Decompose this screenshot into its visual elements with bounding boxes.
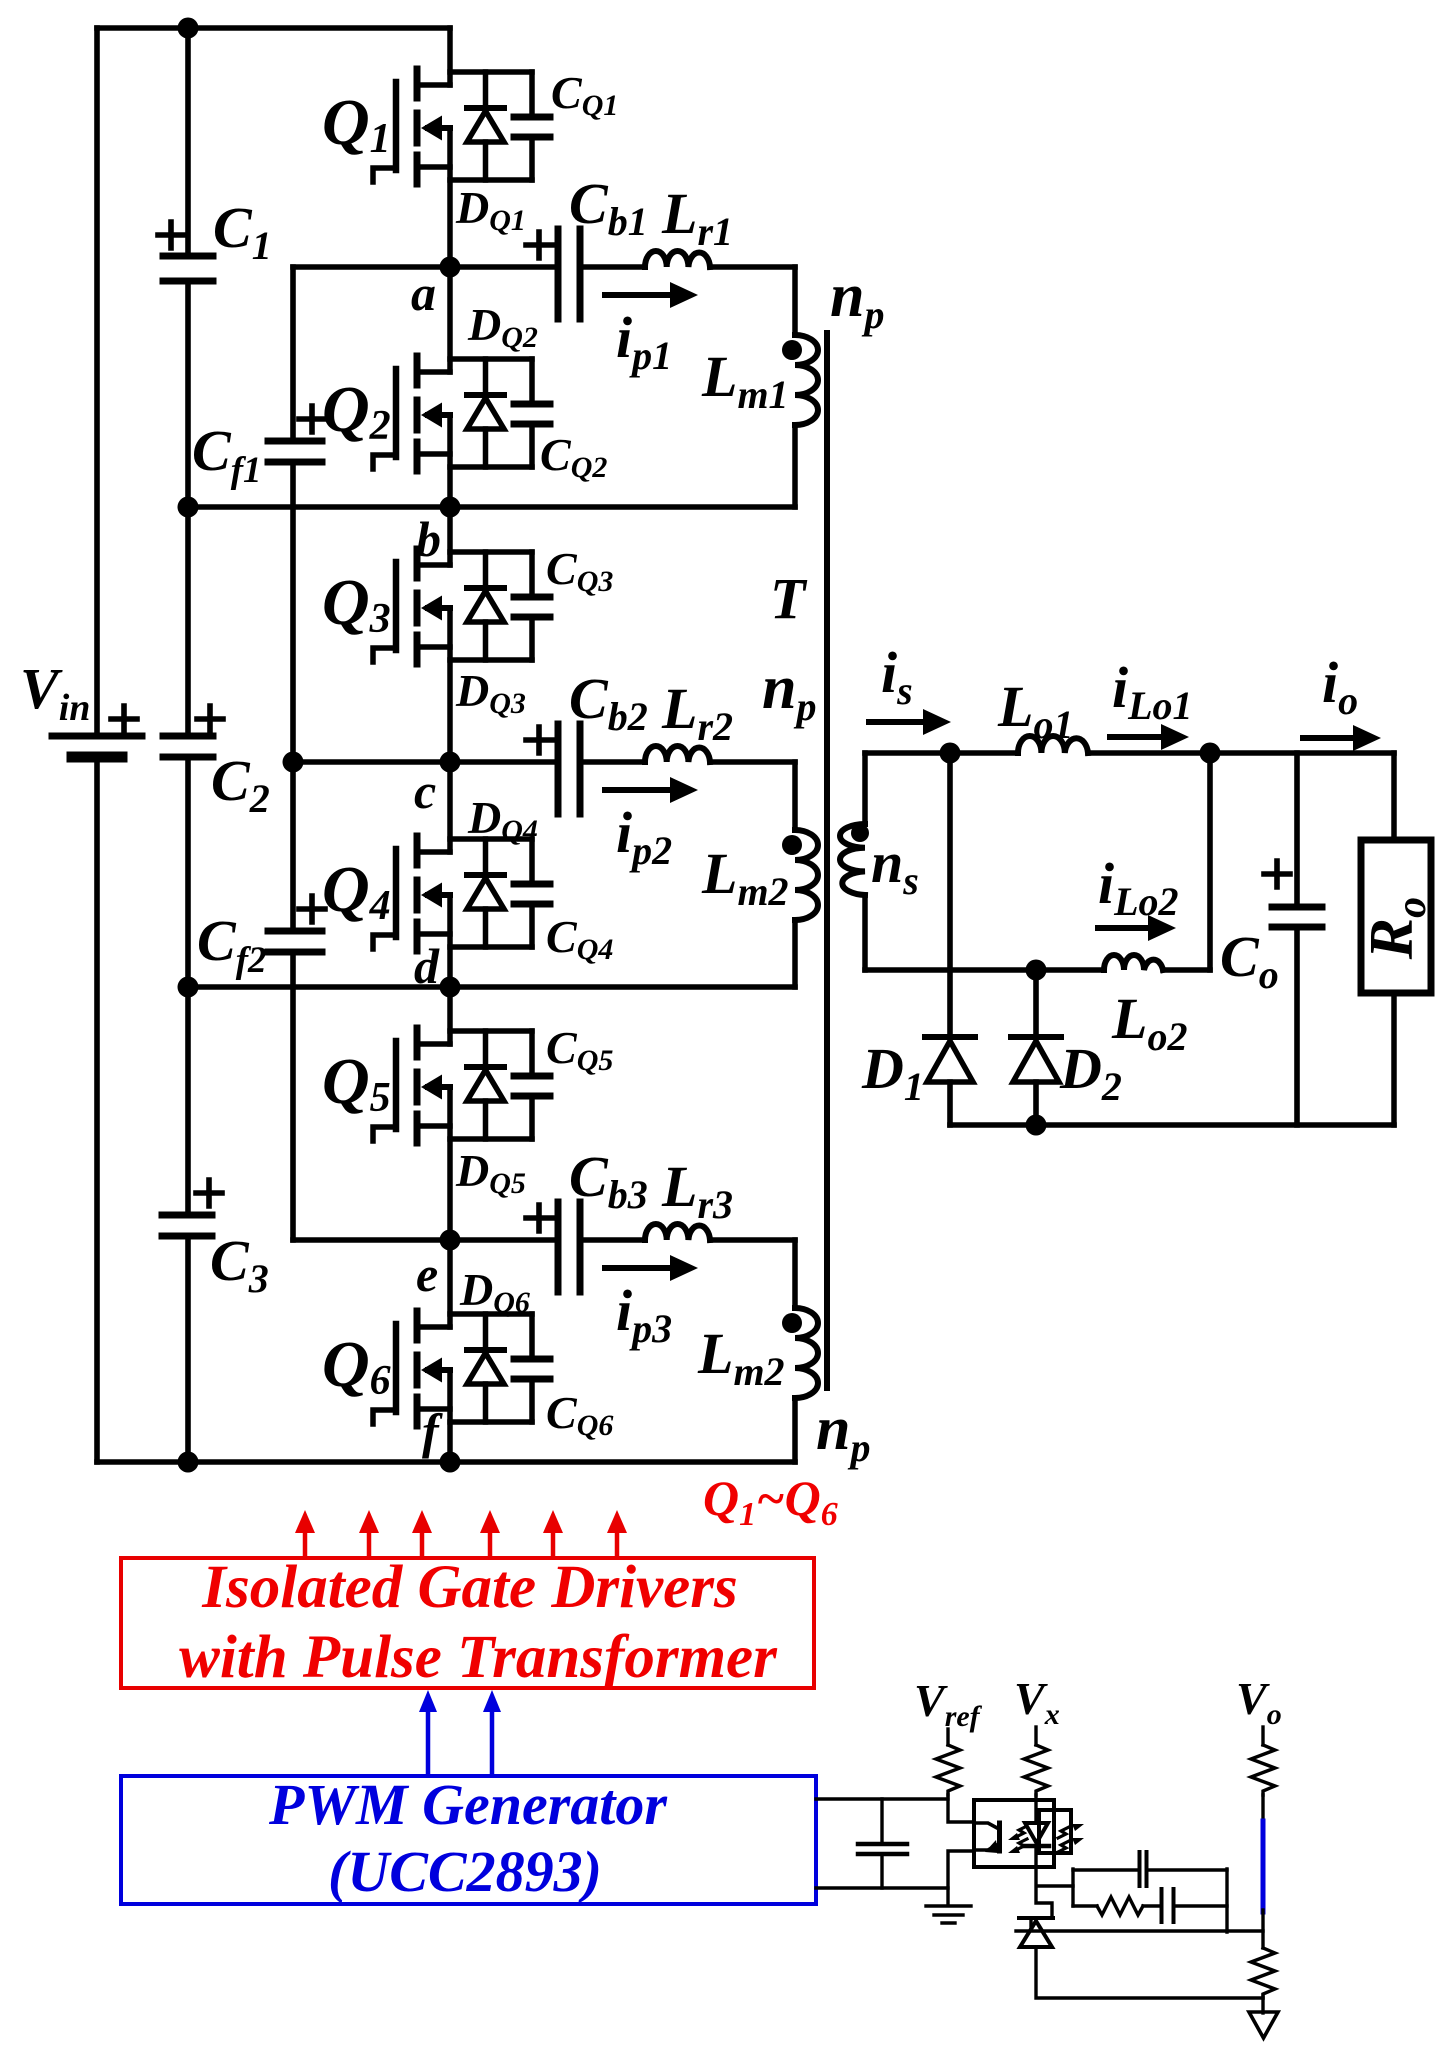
plus sign of C3: [196, 1180, 222, 1206]
plus sign of Cf1: [299, 406, 325, 432]
capacitor C1: [163, 256, 213, 281]
optocoupler box: [974, 1800, 1054, 1867]
svg-text:DQ6: DQ6: [459, 1264, 530, 1319]
transistor Q4 cell with body diode DQ4 and capacitor CQ4: [373, 836, 550, 951]
plus sign of Cf2: [299, 896, 325, 922]
wire REF line: [1016, 1919, 1263, 1931]
transformer core line: [824, 333, 830, 1388]
resistor (Vref): [936, 1745, 960, 1795]
svg-text:DQ1: DQ1: [455, 182, 526, 237]
plus sign of Co: [1264, 861, 1290, 887]
svg-text:ip3: ip3: [616, 1278, 672, 1351]
svg-text:with Pulse Transformer: with Pulse Transformer: [179, 1624, 778, 1691]
node c: [440, 752, 461, 773]
capacitor (PWM bypass): [880, 1799, 883, 1888]
wire Vx lead: [1034, 1727, 1037, 1745]
svg-text:ip1: ip1: [616, 305, 672, 378]
blue box: PWM Generator: [121, 1776, 816, 1904]
svg-text:Cb1: Cb1: [569, 171, 648, 244]
wire: capacitor rail x=188 segment 2: [185, 284, 191, 733]
red gate arrows Q1..Q6: [295, 1510, 627, 1556]
svg-text:C3: C3: [210, 1228, 269, 1301]
light arrows: [1016, 1826, 1027, 1850]
svg-text:DQ3: DQ3: [455, 665, 526, 720]
svg-text:ip2: ip2: [616, 800, 672, 873]
svg-text:iLo2: iLo2: [1098, 851, 1179, 924]
svg-text:Cb3: Cb3: [569, 1144, 648, 1217]
svg-text:C1: C1: [213, 195, 272, 268]
svg-text:c: c: [414, 763, 436, 819]
inductor Lo1: [1018, 736, 1088, 753]
resistor (Vx): [1024, 1745, 1048, 1795]
capacitor C2: [163, 736, 213, 757]
svg-text:Cf2: Cf2: [197, 908, 267, 981]
wire: node a stub to flying rail: [290, 267, 296, 438]
wire node f (bottom rail): [97, 1459, 795, 1465]
svg-text:Q4: Q4: [322, 853, 391, 929]
svg-text:Lm2: Lm2: [697, 1321, 785, 1394]
wire divider mid: [1261, 1910, 1264, 1948]
capacitor C3: [162, 1215, 212, 1236]
svg-text:DQ5: DQ5: [455, 1145, 526, 1200]
svg-text:a: a: [411, 265, 436, 321]
wire Vo resistor to divider (upper black): [1261, 1795, 1264, 1822]
svg-text:Vin: Vin: [20, 656, 90, 729]
wire secondary middle rail: [865, 967, 1210, 973]
svg-text:CQ2: CQ2: [540, 429, 607, 484]
load resistor Ro: [1391, 753, 1397, 1125]
svg-text:CQ1: CQ1: [551, 67, 618, 122]
RC compensation network: [1073, 1852, 1227, 1932]
wire divider blue segment: [1261, 1821, 1266, 1912]
transistor Q1 cell with body diode DQ1 and capacitor CQ1: [373, 69, 550, 184]
node e: [440, 1230, 461, 1251]
transistor Q5 cell with body diode DQ5 and capacitor CQ5: [373, 1028, 550, 1143]
node f: [440, 1452, 461, 1473]
wire: left input rail (upper): [94, 28, 100, 736]
wire TL431 anode: [1036, 1947, 1263, 1998]
svg-text:T: T: [770, 566, 808, 631]
wire: flying rail mid: [290, 465, 296, 928]
svg-text:Lr3: Lr3: [661, 1154, 733, 1227]
svg-text:b: b: [416, 511, 441, 567]
wire: flying rail bottom: [290, 955, 296, 1240]
svg-text:d: d: [414, 938, 440, 994]
current arrow iLo2: [1098, 915, 1176, 941]
wire node b: [188, 504, 795, 510]
wire below lower resistor: [1261, 1995, 1264, 2013]
optocoupler LED: [1024, 1823, 1049, 1846]
optocoupler phototransistor: [974, 1823, 1000, 1851]
wire Vref lead: [946, 1729, 949, 1745]
wire: capacitor rail x=188 segment 4: [185, 1239, 191, 1462]
wire primary 2 down: [792, 762, 798, 830]
svg-text:ns: ns: [871, 830, 919, 903]
wire primary 1 down: [792, 267, 798, 335]
svg-text:Lm2: Lm2: [701, 841, 789, 914]
svg-text:Cb2: Cb2: [569, 666, 648, 739]
winding Lm3 (primary np, labelled Lm2 in source): [795, 1308, 818, 1398]
svg-text:Q5: Q5: [322, 1045, 391, 1121]
node b: [440, 497, 461, 518]
svg-text:Lm1: Lm1: [701, 344, 789, 417]
winding Lm2 (primary np): [795, 830, 818, 920]
diode D2: [1033, 970, 1039, 1033]
svg-text:CQ5: CQ5: [546, 1022, 613, 1077]
current arrow ip2: [605, 777, 698, 803]
wire: capacitor rail x=188 segment 3: [185, 760, 191, 1212]
wire LED cathode down / tee to RC: [1036, 1847, 1073, 1917]
svg-text:D1: D1: [861, 1036, 924, 1109]
source Vin battery: [52, 736, 142, 757]
wire: left input rail (lower): [94, 757, 100, 1462]
capacitor Co: [1294, 753, 1300, 905]
current arrow ip1: [605, 282, 698, 308]
diode D1: [947, 753, 953, 1033]
wire PWM top output: [816, 1797, 948, 1800]
svg-text:Vo: Vo: [1236, 1673, 1282, 1731]
ground: [926, 1906, 971, 1923]
winding Lm1 (primary np): [795, 335, 818, 425]
wire PWM bottom output: [816, 1886, 948, 1889]
wire primary 3 down: [792, 1240, 798, 1308]
wire + capacitor Cb1 + inductor Lr1: [293, 229, 795, 319]
svg-text:Lo2: Lo2: [1111, 986, 1187, 1059]
wire secondary top rail: [865, 750, 1394, 756]
svg-text:CQ3: CQ3: [546, 543, 613, 598]
svg-text:DQ2: DQ2: [467, 299, 538, 354]
wire Vo lead: [1261, 1727, 1264, 1745]
svg-text:io: io: [1322, 650, 1358, 723]
ground arrow (output return): [1249, 2012, 1278, 2038]
capacitor Cf1: [268, 441, 322, 462]
svg-text:is: is: [881, 640, 913, 713]
red box: Isolated Gate Drivers: [121, 1558, 814, 1688]
right-side zigzag arrows: [1058, 1827, 1069, 1852]
svg-text:np: np: [762, 654, 816, 729]
blue arrows PWM to drivers: [419, 1690, 501, 1774]
plus sign of C1: [158, 222, 184, 248]
resistor (Vo lower): [1251, 1948, 1275, 1998]
svg-text:DQ4: DQ4: [467, 792, 538, 847]
inductor Lo2: [1104, 955, 1163, 970]
wire Vref resistor bottom to opto: [948, 1795, 974, 1822]
node d: [440, 977, 461, 998]
winding ns (secondary): [862, 753, 868, 824]
svg-text:Q3: Q3: [322, 566, 391, 642]
svg-text:Q2: Q2: [322, 373, 391, 449]
plus sign of Cb2: [526, 727, 552, 753]
svg-text:CQ4: CQ4: [546, 911, 613, 966]
svg-text:Vref: Vref: [914, 1675, 983, 1733]
transistor Q3 cell with body diode DQ3 and capacitor CQ3: [373, 549, 550, 664]
svg-text:np: np: [830, 262, 884, 337]
transistor Q2 cell with body diode DQ2 and capacitor CQ2: [373, 356, 550, 471]
wire trunk segments: [447, 28, 453, 1462]
wire secondary bottom rail: [950, 1122, 1394, 1128]
plus sign of Cb1: [526, 232, 552, 258]
plus sign of C2: [197, 706, 223, 732]
current arrow ip3: [605, 1255, 698, 1281]
current arrow is: [869, 709, 951, 735]
svg-text:(UCC2893): (UCC2893): [328, 1839, 602, 1904]
junction dots on secondary top rail: [940, 743, 961, 764]
wire: top rail y=28: [97, 25, 450, 31]
svg-text:Lr1: Lr1: [661, 181, 733, 254]
plus sign of Cb3: [526, 1205, 552, 1231]
wire opto emitter to ground: [948, 1851, 974, 1905]
svg-text:Co: Co: [1220, 924, 1279, 997]
svg-text:Cf1: Cf1: [192, 418, 262, 491]
current arrow io: [1303, 725, 1381, 751]
svg-text:Lo1: Lo1: [997, 674, 1073, 747]
svg-text:iLo1: iLo1: [1112, 655, 1193, 728]
node a: [440, 257, 461, 278]
svg-text:CQ6: CQ6: [546, 1387, 613, 1442]
svg-text:Q1: Q1: [322, 86, 391, 162]
TL431 shunt regulator: [1019, 1918, 1053, 1947]
plus sign of Vin: [111, 706, 137, 732]
transistor Q6 cell with body diode DQ6 and capacitor CQ6: [373, 1311, 550, 1426]
svg-text:np: np: [816, 1395, 870, 1470]
svg-text:C2: C2: [211, 748, 270, 821]
svg-text:Lr2: Lr2: [661, 676, 733, 749]
wire node d: [188, 984, 795, 990]
capacitor Cf2: [268, 931, 322, 952]
svg-text:Isolated Gate Drivers: Isolated Gate Drivers: [201, 1554, 737, 1621]
svg-text:Ro: Ro: [1358, 897, 1435, 960]
svg-text:Q1~Q6: Q1~Q6: [703, 1470, 838, 1533]
svg-text:PWM Generator: PWM Generator: [268, 1772, 667, 1837]
wire Lo2 to top node: [1207, 753, 1213, 970]
svg-text:Vx: Vx: [1014, 1673, 1060, 1731]
wire Vx resistor to LED: [1034, 1795, 1037, 1822]
svg-text:Q6: Q6: [322, 1328, 391, 1404]
resistor (Vo upper): [1251, 1745, 1275, 1795]
node junction on top rail: [178, 18, 199, 39]
svg-text:e: e: [416, 1246, 438, 1302]
current arrow iLo1: [1110, 724, 1189, 750]
wire: capacitor rail x=188 segment 1: [185, 28, 191, 253]
